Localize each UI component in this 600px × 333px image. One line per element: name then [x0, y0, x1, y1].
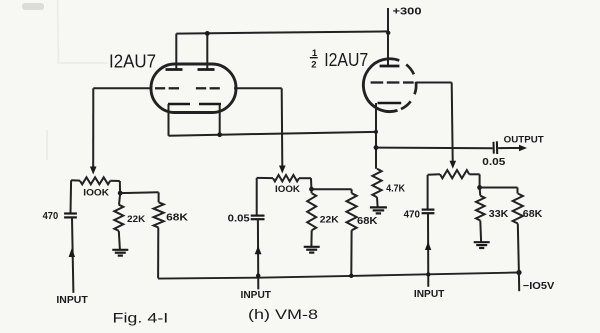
svg-text:IOOK: IOOK: [275, 184, 300, 195]
svg-text:INPUT: INPUT: [414, 289, 445, 300]
svg-text:+300: +300: [393, 7, 423, 18]
svg-text:68K: 68K: [523, 209, 543, 220]
svg-text:INPUT: INPUT: [56, 295, 87, 306]
svg-text:(h) VM-8: (h) VM-8: [248, 306, 318, 322]
svg-text:IOOK: IOOK: [83, 187, 109, 198]
svg-text:68K: 68K: [166, 213, 189, 224]
svg-text:INPUT: INPUT: [241, 290, 272, 301]
svg-text:0.05: 0.05: [228, 214, 250, 225]
svg-text:−IO5V: −IO5V: [523, 281, 555, 292]
svg-text:4.7K: 4.7K: [386, 184, 406, 195]
svg-text:Fig. 4-I: Fig. 4-I: [113, 309, 169, 325]
svg-text:22K: 22K: [320, 214, 339, 225]
svg-text:OUTPUT: OUTPUT: [504, 135, 544, 146]
svg-text:470: 470: [43, 211, 59, 222]
svg-text:470: 470: [404, 209, 421, 220]
svg-text:68K: 68K: [357, 216, 378, 227]
svg-text:I2AU7: I2AU7: [324, 50, 368, 70]
svg-text:0.05: 0.05: [482, 157, 506, 168]
svg-text:I2AU7: I2AU7: [109, 52, 156, 72]
svg-text:33K: 33K: [489, 209, 509, 220]
svg-text:22K: 22K: [127, 214, 145, 225]
svg-text:2: 2: [311, 59, 316, 70]
